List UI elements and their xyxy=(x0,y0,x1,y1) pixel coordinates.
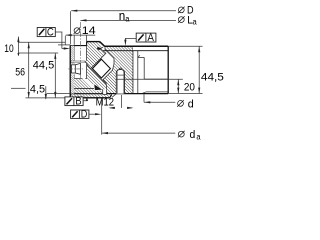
svg-text:a: a xyxy=(125,14,130,23)
svg-text:B: B xyxy=(75,96,81,108)
dim: ⌀ L_a line with n_a count label xyxy=(80,19,176,21)
right ring top xyxy=(105,45,169,47)
dim 44,5 right xyxy=(168,46,202,93)
frame A (flatness ref) xyxy=(124,32,156,46)
roller (diamond) xyxy=(92,59,110,78)
dim 10 left xyxy=(18,37,65,56)
svg-text:44,5: 44,5 xyxy=(201,71,224,83)
dim 56 left xyxy=(26,43,71,98)
upper-left (outer) ring half, hatched xyxy=(70,42,106,69)
⌀14 hole (white, through upper-left ring) xyxy=(70,22,86,62)
main outlines over hatch xyxy=(70,42,168,98)
right ring unsectioned white part xyxy=(133,47,168,94)
right edge xyxy=(167,46,169,93)
right (inner) ring, hatched section part xyxy=(103,46,133,93)
chamfer xyxy=(100,42,105,47)
svg-text:20: 20 xyxy=(184,81,195,93)
svg-text:d: d xyxy=(190,129,196,141)
white pocket around lower seal xyxy=(93,83,103,91)
dim ⌀ d_a xyxy=(102,99,176,135)
dense hatch on bore strip of upper ring xyxy=(71,46,74,61)
white sliver under top chamfer + top seal blob xyxy=(100,44,105,48)
dim 20 right xyxy=(116,79,202,93)
bore edge xyxy=(69,46,71,98)
svg-text:a: a xyxy=(196,132,201,141)
right ring bottom xyxy=(107,93,169,95)
frame B (datum) xyxy=(65,96,88,108)
dim 44,5 left xyxy=(54,53,56,98)
frame C (datum) xyxy=(37,27,70,50)
svg-text:10: 10 xyxy=(4,43,13,55)
svg-text:d: d xyxy=(188,98,194,110)
grease nipple in lower-left ring xyxy=(68,63,83,74)
svg-text:C: C xyxy=(47,27,54,39)
lower seal dark wedge xyxy=(94,84,102,90)
svg-text:D: D xyxy=(81,109,88,121)
dim: ⌀14 hole callout xyxy=(74,27,81,34)
lube hole continuation through lower ring (white) xyxy=(74,63,86,79)
svg-text:4,5: 4,5 xyxy=(30,84,45,96)
svg-text:M12: M12 xyxy=(96,96,114,108)
land top xyxy=(87,41,100,43)
svg-text:56: 56 xyxy=(15,66,25,78)
svg-text:44,5: 44,5 xyxy=(33,60,54,72)
dim ⌀ d xyxy=(144,94,175,102)
hole centerline xyxy=(79,22,81,62)
dim 4,5 left xyxy=(11,86,70,99)
frame D (datum) xyxy=(71,109,102,121)
dim line under M12 xyxy=(110,95,132,108)
M12 tapped hole in right ring xyxy=(116,68,124,94)
svg-text:a: a xyxy=(193,18,198,27)
svg-text:A: A xyxy=(147,32,154,44)
white exit slot between rings at bottom xyxy=(103,89,107,94)
lower-left (outer) ring half with bottom lip, hatched xyxy=(70,63,111,98)
dim: ⌀ D line xyxy=(71,11,176,45)
left ring bottom lip xyxy=(70,93,102,95)
top recess left ring xyxy=(70,45,86,47)
top seal dark blob xyxy=(97,47,102,50)
gap channel white band below roller (lube duct) xyxy=(82,77,95,90)
